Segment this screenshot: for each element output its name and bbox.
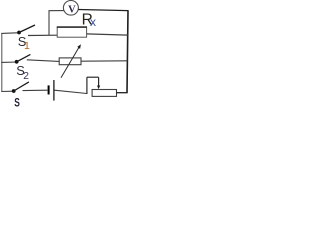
wire voltmeter right: [78, 10, 128, 11]
wire S1 row left: [1, 32, 17, 35]
rheostat arrow: [61, 47, 79, 78]
svg-text:V: V: [68, 4, 76, 15]
right rail: [127, 10, 128, 93]
svg-text:2: 2: [23, 71, 29, 82]
wire pot right: [117, 92, 128, 94]
wire S to battery: [23, 89, 48, 91]
svg-text:1: 1: [24, 40, 30, 52]
wire jog top: [87, 76, 99, 78]
wire S1 to Rx: [28, 34, 57, 36]
node S pivot dot: [12, 89, 16, 93]
wire S2 to rheostat: [27, 60, 59, 62]
wiper arrow down: [98, 77, 100, 86]
wire voltmeter tap vertical: [48, 11, 50, 36]
wire Rx right: [87, 34, 128, 35]
wire S2 row left: [1, 61, 16, 63]
battery short plate: [48, 85, 50, 94]
switch S blade: [14, 82, 29, 91]
potentiometer box: [92, 90, 116, 97]
node S1 pivot dot: [17, 31, 21, 35]
svg-text:S: S: [14, 96, 20, 107]
left rail: [1, 33, 3, 91]
node S2 pivot dot: [15, 60, 19, 64]
battery long plate: [53, 80, 55, 101]
svg-text:x: x: [90, 15, 96, 29]
wire voltmeter left: [49, 10, 64, 12]
switch S1 blade: [19, 25, 35, 33]
wire riser up: [86, 77, 88, 94]
resistor Rx box: [57, 27, 86, 37]
wire S row left: [1, 90, 13, 92]
wire battery right: [54, 90, 87, 93]
voltmeter V: [63, 1, 78, 16]
switch S2 blade: [17, 54, 31, 61]
rheostat box: [59, 58, 81, 65]
wire rheostat right: [81, 60, 127, 62]
